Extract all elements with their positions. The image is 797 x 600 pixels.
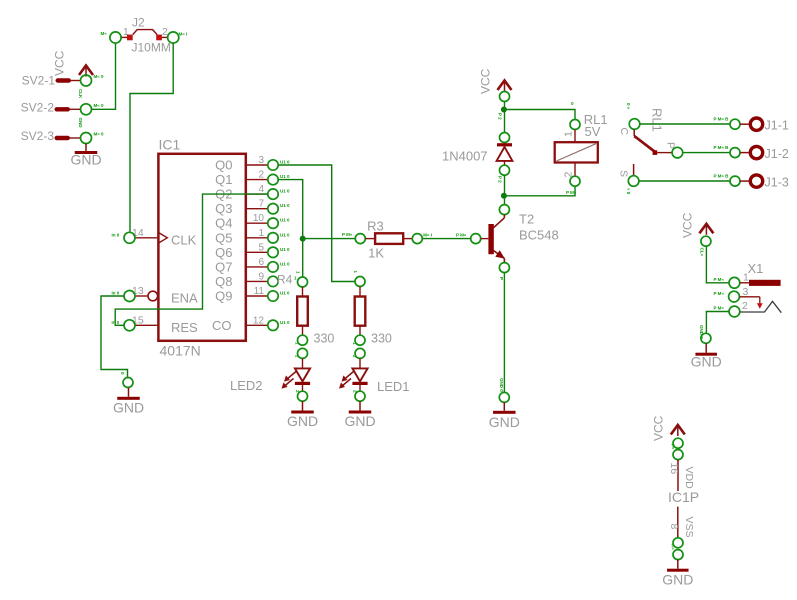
ground symbol GND (LED2)	[287, 401, 318, 429]
svg-text:14: 14	[132, 227, 144, 239]
svg-text:U1 0: U1 0	[280, 261, 290, 266]
svg-text:16: 16	[668, 463, 680, 475]
svg-text:8: 8	[668, 524, 680, 530]
svg-text:2: 2	[742, 300, 748, 312]
svg-text:J1-2: J1-2	[765, 147, 789, 161]
svg-text:VCC: VCC	[479, 68, 493, 94]
svg-text:P: P	[665, 142, 677, 149]
svg-text:CO: CO	[212, 318, 232, 333]
svg-text:CLK: CLK	[171, 233, 197, 248]
svg-text:GND 0: GND 0	[499, 378, 504, 392]
ground symbol GND (LED1)	[344, 401, 375, 429]
svg-text:VCC: VCC	[652, 415, 666, 441]
diode D1 1N4007	[442, 133, 512, 184]
pin Q4 (pin 10) of IC1	[215, 213, 290, 231]
pin VSS (pin 8) of IC1P	[668, 507, 695, 560]
pin circle J2-2	[168, 32, 179, 43]
svg-text:SV2-3: SV2-3	[21, 129, 55, 143]
svg-text:P: P	[499, 277, 504, 280]
ground symbol GND (IC1P)	[662, 560, 693, 588]
wire Q1 to node	[278, 180, 303, 239]
svg-text:GND: GND	[662, 572, 693, 588]
svg-text:SV2-1: SV2-1	[22, 74, 56, 88]
svg-text:A«: A«	[671, 544, 676, 550]
wire ENA to GND	[101, 296, 128, 378]
svg-text:GND: GND	[78, 118, 83, 129]
power symbol VCC (T2 column)	[479, 68, 512, 94]
svg-text:330: 330	[371, 331, 392, 345]
wire Q0 to LED1 resistor	[278, 165, 355, 282]
pin Q8 (pin 9) of IC1	[215, 271, 297, 289]
svg-text:BC548: BC548	[519, 228, 559, 243]
wire RES to Q2	[115, 194, 268, 325]
svg-text:13: 13	[132, 285, 144, 297]
svg-text:LED1: LED1	[377, 379, 410, 394]
svg-text:U1 0: U1 0	[280, 320, 290, 325]
node junction VCC/relay pin1	[501, 107, 507, 113]
svg-text:In 0: In 0	[112, 291, 120, 296]
svg-text:GND: GND	[344, 413, 375, 429]
svg-text:GND 0: GND 0	[699, 325, 704, 339]
pin Q1 (pin 2) of IC1	[215, 170, 290, 188]
svg-text:M« I: M« I	[423, 233, 432, 238]
svg-text:3: 3	[258, 155, 264, 166]
LED LED1	[339, 358, 410, 394]
svg-text:ENA: ENA	[171, 291, 198, 306]
svg-text:J2: J2	[132, 16, 145, 30]
pin circle VCC top	[500, 92, 510, 102]
svg-text:P M«: P M«	[714, 306, 725, 311]
svg-text:Q0: Q0	[215, 158, 232, 173]
svg-text:330: 330	[314, 331, 335, 345]
svg-text:P«: P«	[671, 444, 676, 450]
relay coil RL1 5V	[555, 112, 608, 186]
svg-text:R3: R3	[367, 219, 384, 234]
svg-text:R4: R4	[277, 273, 293, 287]
svg-text:P M«: P M«	[714, 291, 725, 296]
svg-text:SV2-2: SV2-2	[21, 101, 55, 115]
svg-text:C: C	[618, 128, 630, 136]
connector pad J1-2	[714, 145, 789, 161]
ground symbol GND (SV2-3)	[70, 144, 101, 168]
resistor R3 1K	[355, 219, 432, 261]
svg-text:Q8: Q8	[215, 274, 232, 289]
node junction Q1/R3/R4	[300, 236, 306, 242]
svg-text:2: 2	[258, 170, 264, 181]
svg-text:U1 0: U1 0	[280, 232, 290, 237]
svg-text:CLK: CLK	[78, 89, 83, 99]
svg-text:P M« B: P M« B	[714, 117, 730, 122]
svg-text:12: 12	[253, 315, 265, 326]
svg-text:GND: GND	[691, 354, 722, 370]
svg-text:VSS: VSS	[683, 517, 695, 538]
svg-text:P 2: P 2	[498, 176, 503, 183]
relay contact RL1 (C/P/S)	[618, 103, 683, 195]
svg-text:11: 11	[254, 286, 265, 297]
svg-text:U1 0: U1 0	[280, 291, 290, 296]
svg-text:P M«: P M«	[456, 233, 467, 238]
svg-text:P M«: P M«	[566, 190, 577, 195]
resistor R4 330 (LED2)	[296, 271, 335, 345]
wire X1 pin2 to GND	[706, 312, 729, 334]
svg-text:P M«: P M«	[714, 277, 725, 282]
svg-text:RES: RES	[171, 320, 198, 335]
wire J2 pin2 to CLK	[130, 43, 173, 232]
pin Q3 (pin 7) of IC1	[215, 199, 290, 217]
svg-text:4017N: 4017N	[160, 343, 201, 359]
pin circle J2-1	[110, 32, 121, 43]
svg-text:6: 6	[258, 257, 264, 268]
svg-text:S: S	[618, 170, 630, 177]
svg-text:1: 1	[258, 228, 264, 239]
svg-text:M« 0: M« 0	[94, 103, 105, 108]
wire VCC to diode/relay	[504, 102, 506, 133]
wire R3 to T2 base	[422, 238, 470, 240]
connector X1 jack	[714, 261, 782, 317]
LED LED2	[230, 358, 310, 393]
wire P to J1-2	[683, 152, 730, 154]
pin circle LED1 cathode	[353, 390, 366, 401]
svg-text:J10MM: J10MM	[132, 41, 171, 55]
svg-text:5V: 5V	[585, 124, 601, 139]
svg-text:15: 15	[132, 315, 144, 327]
pin Q7 (pin 6) of IC1	[215, 257, 290, 275]
connector pin SV2-2	[21, 101, 104, 115]
svg-text:M« 0: M« 0	[94, 132, 105, 137]
svg-text:U1 0: U1 0	[280, 203, 290, 208]
svg-text:1: 1	[743, 272, 749, 284]
svg-text:Q1: Q1	[215, 172, 232, 187]
svg-text:1K: 1K	[368, 246, 384, 261]
pin circle emitter-GND	[499, 392, 509, 402]
ground symbol GND (T2)	[489, 402, 520, 430]
pin ENA (pin 13) of IC1, inverted	[112, 285, 199, 305]
pin circle ENA-GND	[123, 378, 133, 388]
svg-text:J1-3: J1-3	[765, 176, 789, 190]
svg-text:RL1: RL1	[650, 108, 665, 132]
pin RES (pin 15) of IC1	[112, 315, 199, 335]
wire C to J1-1	[640, 123, 730, 125]
svg-text:U1 0: U1 0	[280, 174, 290, 179]
pin CO (pin 12) of IC1	[212, 315, 290, 333]
pin circle X1-GND	[701, 333, 711, 343]
svg-text:M« I: M« I	[179, 32, 188, 37]
svg-text:P M«: P M«	[342, 232, 353, 237]
svg-text:VCC: VCC	[681, 212, 695, 238]
IC U1 body (IC1 4017N)	[158, 137, 245, 359]
pin Q5 (pin 1) of IC1	[215, 228, 290, 246]
svg-text:1N4007: 1N4007	[442, 149, 488, 164]
power symbol VCC (X1)	[681, 212, 714, 238]
node junction collector/relay pin2	[501, 193, 507, 199]
svg-text:P 2: P 2	[498, 113, 503, 120]
ground symbol GND (ENA)	[113, 388, 144, 416]
wire node to relay pin2	[504, 186, 575, 196]
svg-text:7: 7	[258, 199, 264, 210]
transistor T2 BC548	[488, 205, 558, 273]
wire diode to collector node	[504, 175, 506, 204]
pin Q2 (pin 4) of IC1	[215, 184, 290, 202]
svg-text:In 0: In 0	[112, 233, 120, 238]
svg-text:J1-1: J1-1	[765, 119, 789, 133]
svg-text:GND: GND	[489, 414, 520, 430]
svg-text:M«: M«	[101, 31, 108, 36]
wire node to relay pin1	[504, 110, 575, 120]
jumper J2	[121, 16, 171, 55]
svg-text:P M« B: P M« B	[714, 145, 730, 150]
svg-text:CL«: CL«	[700, 248, 705, 257]
svg-text:2: 2	[563, 172, 575, 178]
connector pin SV2-3	[21, 129, 104, 143]
svg-text:GND: GND	[113, 400, 144, 416]
svg-text:U1 0: U1 0	[280, 218, 290, 223]
svg-text:1: 1	[563, 131, 575, 137]
wire SV2-2 to J2 pin1	[92, 43, 116, 109]
svg-text:9: 9	[258, 271, 264, 282]
wire S to J1-3	[639, 180, 730, 182]
wire VCC to X1 pin1	[706, 246, 729, 283]
svg-text:P M« B: P M« B	[714, 174, 730, 179]
svg-text:Q9: Q9	[215, 289, 232, 304]
power symbol VCC (IC1P)	[652, 415, 685, 441]
ground symbol GND (X1)	[691, 343, 722, 369]
svg-text:X1: X1	[748, 261, 764, 276]
svg-text:T2: T2	[519, 212, 534, 227]
pin circle T2 base	[471, 234, 481, 244]
svg-text:10: 10	[253, 213, 265, 224]
pin CLK (pin 14) of IC1	[112, 227, 197, 248]
svg-text:« 0: « 0	[626, 188, 631, 195]
svg-text:M« 0: M« 0	[94, 74, 105, 79]
wire node to R4	[302, 239, 304, 277]
pin circles R5/LED1 junction	[352, 335, 365, 358]
svg-text:5: 5	[258, 242, 264, 253]
svg-text:Q7: Q7	[215, 259, 232, 274]
svg-text:U1 0: U1 0	[280, 160, 290, 165]
svg-text:U1 0: U1 0	[280, 247, 290, 252]
connector pin SV2-1	[22, 74, 104, 88]
resistor R5 330 (LED1)	[353, 271, 392, 346]
svg-text:Q4: Q4	[215, 216, 232, 231]
pin circle VCC-X1	[701, 236, 711, 246]
wire emitter to GND	[503, 273, 505, 393]
svg-text:Q5: Q5	[215, 230, 232, 245]
svg-text:GND: GND	[70, 152, 101, 168]
svg-text:LED2: LED2	[230, 378, 263, 393]
power symbol VCC (SV2-1)	[53, 50, 94, 76]
connector pad J1-3	[714, 174, 789, 190]
pin Q9 (pin 11) of IC1	[215, 286, 290, 304]
pin circle LED2 cathode	[295, 390, 308, 401]
wire node to R3	[303, 238, 356, 240]
svg-text:VCC: VCC	[53, 50, 67, 76]
pin Q6 (pin 5) of IC1	[215, 242, 290, 259]
svg-text:0 «: 0 «	[626, 103, 631, 110]
svg-text:GND: GND	[287, 413, 318, 429]
pin circles R4/LED2 junction	[295, 335, 308, 358]
pin VDD (pin 16) of IC1P	[668, 438, 695, 491]
svg-text:IC1: IC1	[159, 137, 181, 153]
svg-text:Q6: Q6	[215, 245, 232, 260]
connector pad J1-1	[714, 117, 789, 133]
svg-text:IC1P: IC1P	[668, 489, 699, 505]
svg-text:U1 0: U1 0	[280, 189, 290, 194]
pin Q0 (pin 3) of IC1	[215, 155, 290, 173]
svg-text:VDD: VDD	[683, 467, 695, 490]
svg-text:Q3: Q3	[215, 201, 232, 216]
